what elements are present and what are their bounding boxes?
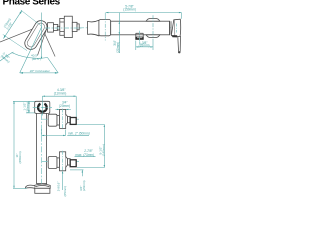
outlet boss (136, 33, 143, 36)
svg-text:(35mm): (35mm) (139, 44, 150, 48)
wall supply flange: side plate ribs (60, 22, 65, 32)
dimension 1-3/8in (35mm) outlet offset: extensions (136, 15, 153, 50)
cartridge dome (bottom) (146, 35, 160, 38)
pivot vertical leader arrow (41, 57, 42, 60)
lever sweep ghost edge left (38, 23, 49, 56)
upper fitting step (57, 116, 60, 125)
dimension 1-1/2in (38mm) holder height: line (28, 101, 30, 113)
head vertical centerline (176, 24, 178, 33)
svg-text:(20mm): (20mm) (116, 42, 120, 53)
head dark band (172, 35, 177, 37)
pivot vertical centerline (41, 13, 43, 59)
body end lines (170, 21, 171, 35)
centerline (horizontal, side view) (57, 27, 181, 29)
dimension 4-3/8in (110mm): line (42, 95, 76, 97)
inlet cone nut (88, 20, 99, 36)
dimension 3/4in (20mm) body diameter: line (118, 13, 120, 53)
handshower holder bracket (35, 101, 50, 113)
vertical dim bottom extension (77, 167, 104, 169)
svg-text:2-9/16": 2-9/16" (56, 182, 60, 192)
dimension 11in (280mm): line (13, 101, 15, 188)
base collar (34, 184, 50, 188)
column centerline (41, 114, 43, 194)
svg-text:(150mm): (150mm) (123, 8, 136, 12)
svg-text:(140mm): (140mm) (101, 144, 105, 156)
outlet centerline (139, 31, 141, 44)
holder crosshair vertical / dim 4-3/8 left extension (41, 96, 43, 115)
lever length dim line (3, 10, 22, 38)
holder bottom extension line (26, 112, 35, 114)
base collar inner curve (35, 186, 49, 187)
dim 1-3/8 arrows (136, 46, 153, 47)
lever handle blade (178, 36, 181, 52)
lower fitting chamfer (66, 157, 68, 168)
holder crosshair horizontal (33, 106, 52, 108)
wall supply flange: side plate (60, 18, 65, 35)
wall supply flange: nipple (72, 22, 77, 31)
temperature baseline (20, 72, 59, 74)
small dim 3/4 below lower block: extension (70, 169, 84, 171)
dim 4-3/8 arrows (42, 96, 76, 97)
dim 5-7/8 left extension / collar centerline (104, 13, 106, 16)
svg-text:(38mm): (38mm) (26, 102, 30, 113)
vertical dimension 5-1/2in (140mm): top extension (77, 123, 104, 125)
base cylinder (35, 188, 50, 193)
svg-text:max. (73mm): max. (73mm) (75, 153, 94, 157)
column tube (37, 113, 47, 184)
lower fitting wall block (70, 160, 76, 167)
wall supply flange: body plate (64, 16, 72, 37)
vertical dim arrows (104, 124, 105, 167)
dim 1-1/2 arrows (28, 101, 29, 113)
dim 11 bottom extension (13, 187, 27, 189)
lever length dim extension 2 (3, 34, 27, 50)
lower fitting flange (60, 152, 66, 171)
svg-text:(40.5°): (40.5°) (32, 57, 41, 61)
temperature funnel right line (48, 58, 59, 73)
flange centerline overlay (45, 27, 82, 29)
angle arc (0, 52, 14, 61)
lever sweep line CCW extreme (0, 25, 44, 42)
dim 11 arrows (13, 101, 14, 188)
dimension min 2in (50mm): line (42, 129, 66, 135)
upper fitting horizontal centerline (42, 118, 79, 120)
dim 4-3/8 right extension (75, 96, 77, 117)
lower fitting escutcheon (48, 157, 57, 169)
upper fitting chamfer (66, 114, 68, 125)
temperature baseline arrows (20, 72, 59, 74)
lower fitting horizontal centerline (42, 161, 79, 163)
lever stem block 1 (48, 23, 54, 32)
dim 2-9/16 (65mm) below lower flange: vertical + arrow (62, 172, 64, 190)
lever stem block 2 (53, 24, 57, 30)
mixer body tube (111, 21, 170, 35)
outlet nut (dark) (135, 37, 143, 40)
holder top extension line (13, 100, 35, 102)
small dim 3/4 vertical + arrow (81, 170, 83, 176)
upper flange vertical centerline (62, 109, 64, 130)
head joint line (174, 20, 176, 36)
lever knob (fat stadium) (23, 18, 50, 51)
lower fitting pipe (68, 159, 71, 165)
escutcheon collar (99, 20, 111, 36)
lower flange vertical centerline (62, 151, 64, 172)
upper fitting escutcheon (48, 114, 57, 126)
svg-text:Phase Series: Phase Series (3, 0, 61, 8)
cartridge dome (top) (146, 19, 160, 22)
valve head (171, 19, 180, 36)
svg-text:min. 2" (50mm): min. 2" (50mm) (68, 131, 90, 135)
hose horn (25, 185, 34, 188)
wall supply flange: nipple tip (77, 24, 79, 30)
lever axis extension radial (20, 27, 42, 73)
upper fitting pipe (68, 116, 71, 122)
lever sweep ghost edge right (42, 27, 55, 57)
lever stem block 3 (57, 26, 60, 30)
svg-text:(65mm): (65mm) (63, 186, 67, 197)
svg-text:(20mm): (20mm) (59, 104, 70, 108)
lower fitting step (57, 158, 60, 167)
upper fitting wall block (70, 118, 76, 125)
svg-text:(20mm): (20mm) (82, 181, 86, 192)
dome centerline + right extension (152, 15, 154, 41)
lever tip (178, 51, 180, 53)
outlet nut slit (137, 37, 142, 39)
lever knob inner contour (26, 22, 46, 49)
dim 3/4 arrows (inside body) (119, 21, 120, 35)
lever length dim arrows (3, 10, 22, 38)
min dim arrows (42, 135, 66, 136)
dim 5-7/8 right extension (181, 13, 183, 19)
dim 5-7/8 arrows (106, 12, 182, 13)
svg-text:40° Cold water: 40° Cold water (30, 69, 51, 73)
upper fitting flange (60, 110, 66, 129)
holder clip ring (dark C) (38, 104, 47, 112)
dimension 5-7/8in (150mm): line (105, 13, 181, 41)
svg-text:(280mm): (280mm) (18, 151, 22, 163)
svg-text:(110mm): (110mm) (54, 92, 67, 96)
vertical dim line (103, 124, 105, 167)
dim 1-3/8 line (136, 46, 153, 48)
dim 3/4 line + outside arrows (55, 108, 71, 110)
lever length dim extension 1 (21, 10, 42, 26)
